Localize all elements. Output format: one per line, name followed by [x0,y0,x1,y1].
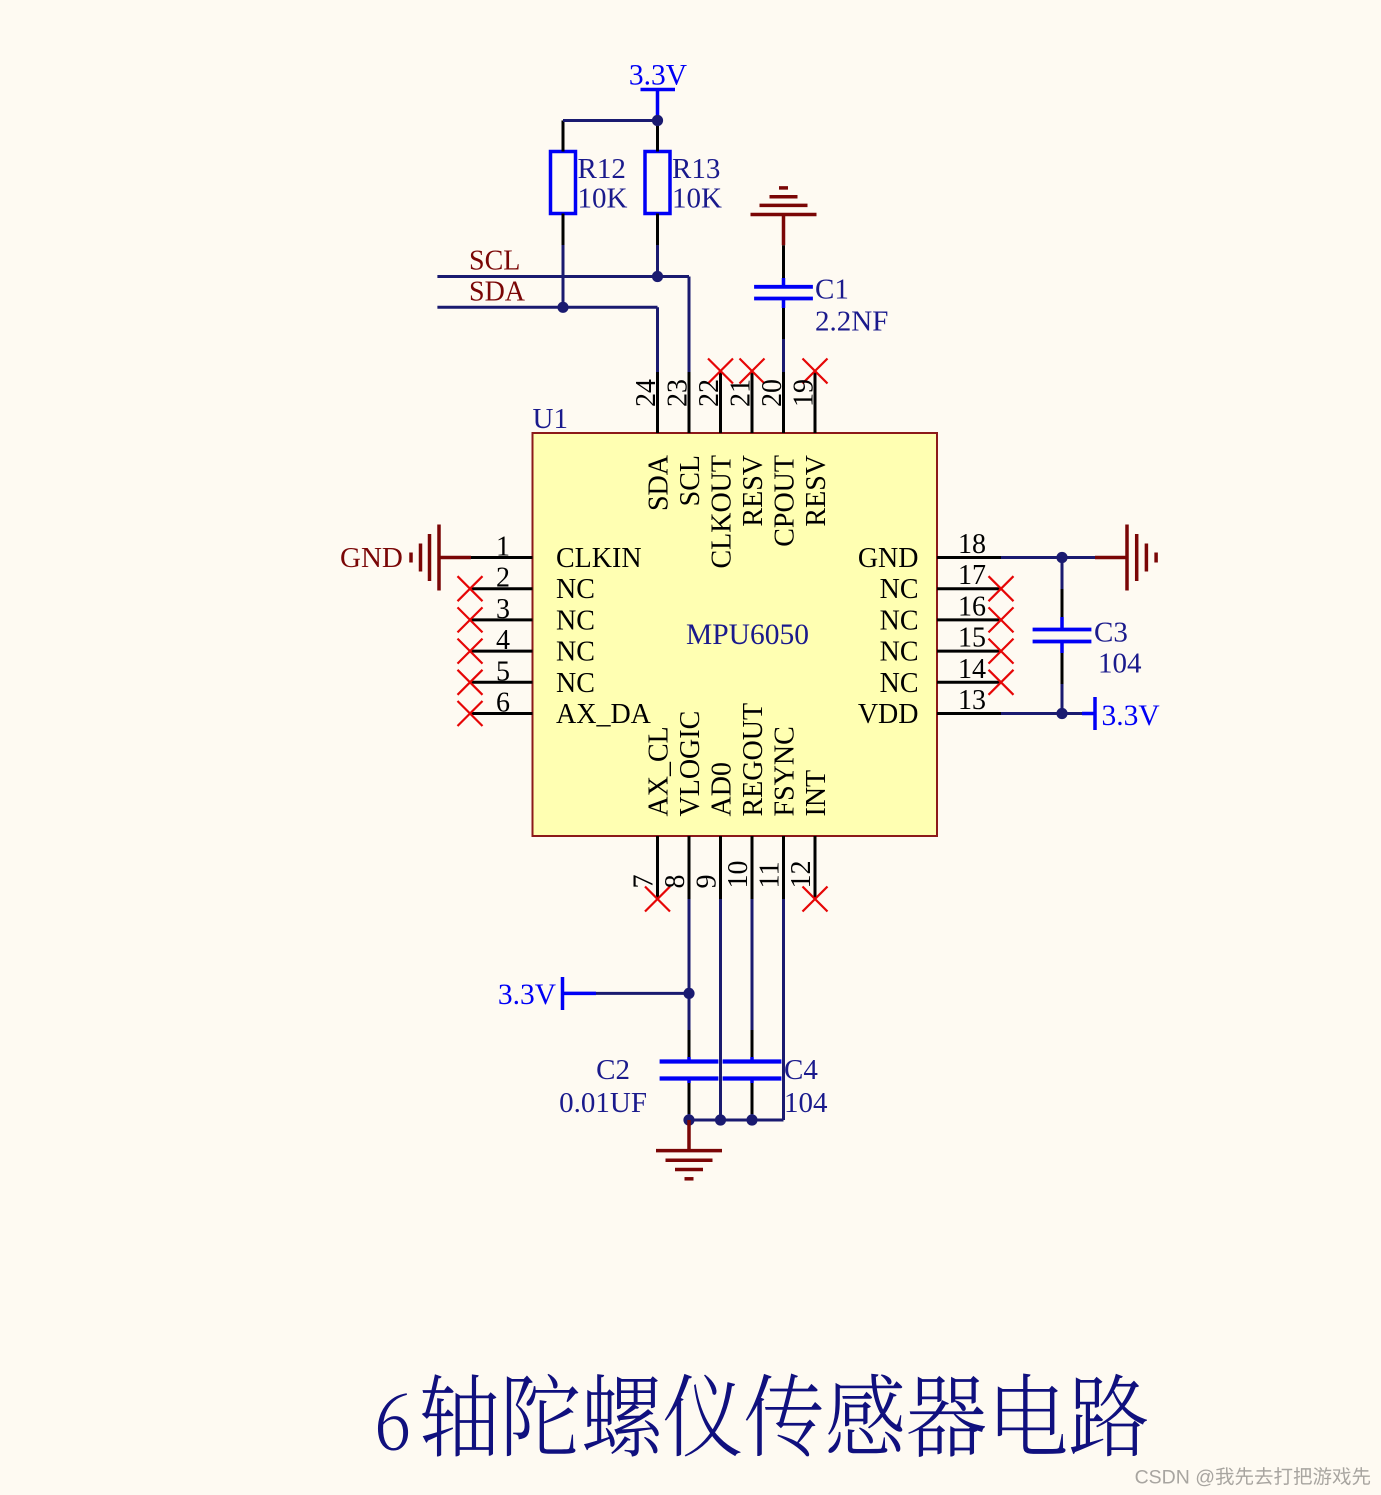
svg-text:9: 9 [692,875,723,889]
svg-text:AD0: AD0 [707,762,738,816]
svg-text:CLKOUT: CLKOUT [707,455,738,569]
svg-text:GND: GND [858,543,919,574]
svg-text:18: 18 [958,529,986,560]
svg-text:NC: NC [556,574,595,605]
svg-text:104: 104 [1098,648,1142,680]
svg-text:6: 6 [496,688,510,719]
svg-text:R12: R12 [578,153,626,185]
svg-text:10: 10 [723,861,754,889]
svg-text:MPU6050: MPU6050 [686,619,809,651]
svg-text:U1: U1 [533,403,568,435]
svg-text:RESV: RESV [738,455,769,527]
svg-text:3.3V: 3.3V [498,979,556,1011]
svg-text:12: 12 [786,861,817,889]
svg-text:13: 13 [958,685,986,716]
svg-text:FSYNC: FSYNC [770,726,801,816]
svg-text:NC: NC [880,668,919,699]
svg-text:21: 21 [726,379,757,407]
svg-text:RESV: RESV [801,455,832,527]
svg-text:VDD: VDD [858,699,919,730]
svg-text:C4: C4 [784,1054,818,1086]
svg-text:22: 22 [694,379,725,407]
svg-text:20: 20 [757,379,788,407]
svg-text:VLOGIC: VLOGIC [675,711,706,817]
svg-text:0.01UF: 0.01UF [559,1087,647,1119]
svg-text:GND: GND [340,542,403,574]
svg-text:7: 7 [629,875,660,889]
svg-text:SCL: SCL [469,246,520,277]
svg-text:2.2NF: 2.2NF [815,306,888,338]
svg-text:17: 17 [958,560,986,591]
svg-text:5: 5 [496,656,510,687]
svg-text:10K: 10K [578,183,628,215]
svg-text:3.3V: 3.3V [1102,700,1160,732]
svg-text:1: 1 [496,532,510,563]
svg-text:NC: NC [880,605,919,636]
svg-text:104: 104 [784,1087,828,1119]
svg-text:CLKIN: CLKIN [556,543,642,574]
svg-text:C1: C1 [815,274,849,306]
svg-text:16: 16 [958,591,986,622]
svg-text:AX_DA: AX_DA [556,699,652,730]
svg-text:CSDN @: CSDN @ [1135,1467,1215,1489]
svg-text:24: 24 [631,379,662,407]
svg-text:NC: NC [556,637,595,668]
svg-text:19: 19 [789,379,820,407]
svg-text:CPOUT: CPOUT [770,455,801,547]
svg-text:SDA: SDA [644,454,675,511]
svg-text:3.3V: 3.3V [629,60,687,92]
svg-text:10K: 10K [672,183,722,215]
svg-text:AX_CL: AX_CL [644,726,675,816]
svg-text:INT: INT [801,770,832,817]
svg-text:2: 2 [496,563,510,594]
svg-text:R13: R13 [672,153,720,185]
svg-text:SDA: SDA [469,277,526,308]
svg-text:SCL: SCL [675,455,706,506]
svg-text:23: 23 [663,379,694,407]
svg-text:C3: C3 [1094,617,1128,649]
svg-text:C2: C2 [596,1054,630,1086]
svg-text:NC: NC [880,574,919,605]
svg-text:NC: NC [556,668,595,699]
svg-text:REGOUT: REGOUT [738,703,769,817]
svg-text:NC: NC [880,637,919,668]
svg-text:14: 14 [958,654,986,685]
svg-text:8: 8 [660,875,691,889]
svg-text:11: 11 [755,862,786,889]
svg-text:15: 15 [958,623,986,654]
svg-text:3: 3 [496,594,510,625]
svg-text:4: 4 [496,625,510,656]
svg-text:NC: NC [556,605,595,636]
